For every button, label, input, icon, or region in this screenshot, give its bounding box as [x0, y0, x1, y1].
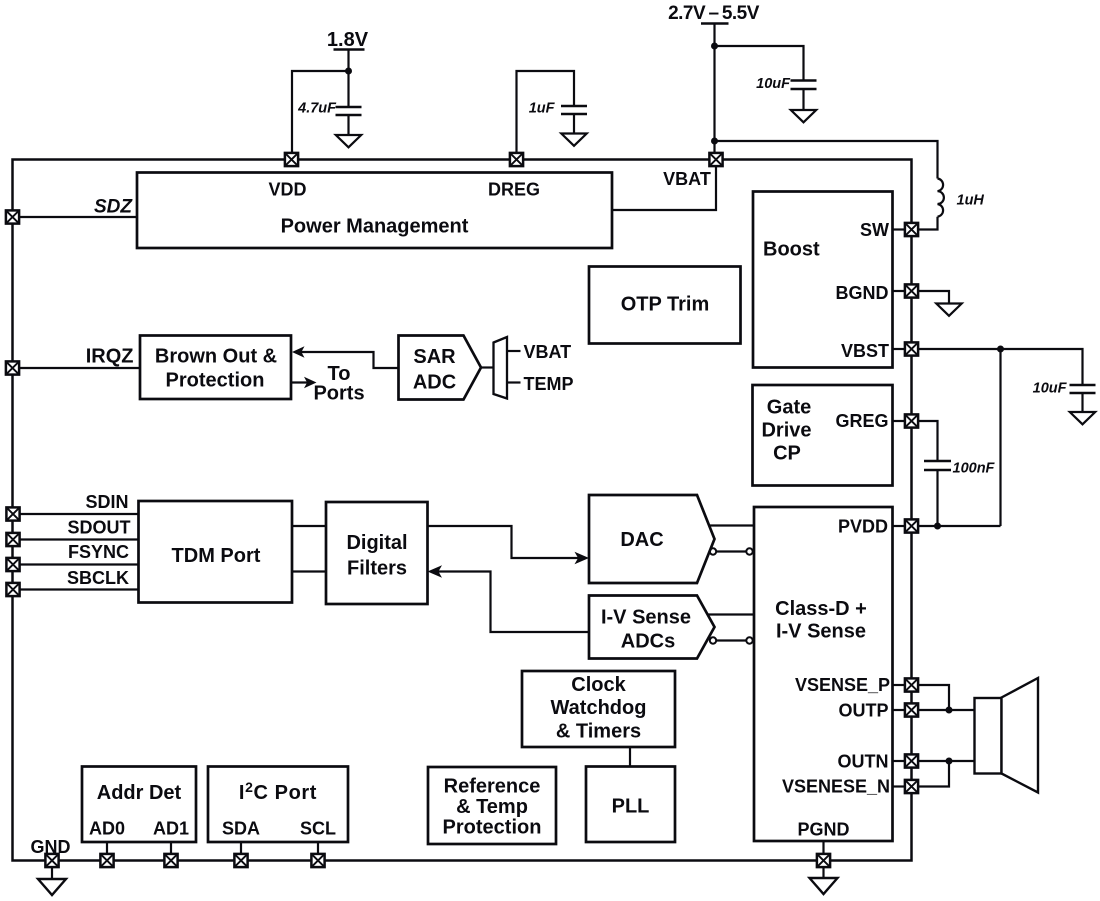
mux selector — [494, 337, 508, 399]
title PLL — [612, 796, 650, 818]
svg-text:ADC: ADC — [413, 372, 456, 394]
svg-text:GREG: GREG — [835, 411, 888, 431]
wire OUTN stub — [893, 760, 906, 762]
wire VBAT to Power Management — [612, 166, 716, 210]
svg-text:Power Management: Power Management — [281, 216, 469, 238]
wire AD0 lead — [106, 842, 108, 854]
title Brown Out — [155, 346, 277, 392]
wire Class-D to I-V Sense ADCs plus — [708, 613, 755, 615]
svg-text:OUTN: OUTN — [838, 752, 889, 772]
svg-text:Protection: Protection — [443, 817, 542, 839]
value 1uF — [529, 101, 556, 117]
pin SW — [905, 223, 918, 236]
svg-text:Brown Out &: Brown Out & — [155, 346, 277, 368]
title Boost — [763, 239, 820, 261]
pin FSYNC — [6, 558, 19, 571]
ground below PGND — [810, 867, 838, 894]
wire DAC to Class-D minus with bubbles — [710, 548, 753, 554]
svg-text:AD1: AD1 — [153, 819, 189, 839]
wire SDOUT — [20, 538, 140, 540]
block I2C Port — [208, 767, 348, 843]
label VBAT mux input — [524, 342, 572, 362]
wire BGND to ground — [918, 291, 949, 304]
svg-text:SDA: SDA — [222, 819, 260, 839]
label FSYNC — [68, 542, 129, 562]
wire SBCLK — [20, 588, 140, 590]
capacitor 10uF (input) — [791, 81, 817, 111]
wire DREG to 1uF — [517, 71, 575, 153]
block OTP Trim — [589, 267, 741, 344]
svg-text:OUTP: OUTP — [838, 701, 888, 721]
ground below boost 10uF — [1070, 412, 1095, 424]
title Power Management — [281, 216, 469, 238]
pin DREG — [510, 153, 523, 166]
title Reference Temp Protection — [443, 776, 542, 839]
svg-text:VSENSE_P: VSENSE_P — [795, 675, 890, 695]
label GREG — [835, 411, 888, 431]
title DAC — [620, 529, 663, 551]
pin IRQZ — [6, 361, 19, 374]
ground at BGND — [936, 304, 961, 316]
label AD1 — [153, 819, 189, 839]
wire FSYNC — [20, 563, 140, 565]
wire mux TEMP input — [507, 381, 521, 383]
wire VSENSE_P stub — [893, 684, 906, 686]
svg-text:I-V Sense: I-V Sense — [776, 621, 866, 643]
svg-text:Addr Det: Addr Det — [97, 782, 182, 804]
wire TDM to Digital Filters upper — [292, 525, 326, 527]
svg-text:Class-D +: Class-D + — [775, 598, 867, 620]
title Gate Drive CP — [761, 397, 811, 465]
wire IRQZ — [19, 367, 141, 369]
wire SAR ADC to mux — [481, 366, 494, 368]
pin VSENSE_P — [905, 678, 918, 691]
wire VBST to 10uF — [918, 349, 1083, 385]
svg-text:Gate: Gate — [767, 397, 811, 419]
label AD0 — [89, 819, 125, 839]
svg-text:1uF: 1uF — [529, 101, 556, 117]
wire Clock Watchdog to PLL — [629, 747, 631, 767]
label PGND — [797, 820, 849, 840]
wire SCL lead — [317, 842, 319, 854]
block PLL — [586, 767, 675, 843]
wire To Ports arrow — [291, 377, 317, 388]
label VSENSE_P — [795, 675, 890, 695]
svg-text:CP: CP — [773, 443, 801, 465]
wire OUTP to speaker — [918, 709, 975, 711]
wire Digital Filters to DAC — [428, 526, 590, 564]
label 2.7V-5.5V — [668, 3, 760, 24]
value 100nF — [953, 461, 996, 477]
block Addr Det — [82, 767, 196, 843]
block Digital Filters — [326, 502, 428, 604]
svg-text:10uF: 10uF — [1033, 381, 1068, 397]
svg-text:PVDD: PVDD — [838, 517, 888, 537]
node VBST junction — [997, 346, 1004, 353]
wire GREG to 100nF — [918, 421, 938, 461]
svg-text:1.8V: 1.8V — [327, 29, 369, 51]
wire AD1 lead — [170, 842, 172, 854]
node VSENESE_N-OUTN junction — [946, 758, 953, 765]
node 100nF to PVDD junction — [934, 523, 941, 530]
wire DAC to Class-D plus — [709, 524, 754, 526]
svg-text:PGND: PGND — [797, 820, 849, 840]
svg-text:Boost: Boost — [763, 239, 820, 261]
wire SDZ — [19, 216, 138, 218]
block Class-D and I-V Sense — [754, 507, 893, 841]
wire 1.8V down to cap — [347, 50, 349, 108]
wire SDA lead — [240, 842, 242, 854]
svg-text:VBST: VBST — [841, 341, 889, 361]
pin VBAT — [709, 153, 722, 166]
title OTP Trim — [621, 294, 710, 316]
svg-text:Reference: Reference — [444, 776, 541, 798]
ground below input 10uF — [791, 110, 816, 122]
svg-text:& Timers: & Timers — [556, 721, 641, 743]
pin SBCLK — [6, 583, 19, 596]
pin BGND — [905, 284, 918, 297]
svg-text:VBAT: VBAT — [524, 342, 572, 362]
svg-text:GND: GND — [31, 837, 71, 857]
pin PVDD — [905, 519, 918, 532]
node supply junction upper — [711, 43, 718, 50]
svg-text:IRQZ: IRQZ — [86, 346, 134, 368]
pin SCL — [311, 854, 324, 867]
label 1.8V — [327, 29, 369, 51]
capacitor 4.7uF — [336, 107, 362, 135]
svg-text:OTP Trim: OTP Trim — [621, 294, 710, 316]
label OUTN — [838, 752, 889, 772]
svg-text:TDM Port: TDM Port — [172, 545, 261, 567]
label SDA — [222, 819, 260, 839]
block Gate Drive CP — [753, 385, 893, 486]
label VDD — [268, 180, 306, 200]
svg-text:Filters: Filters — [347, 558, 407, 580]
pin GREG — [905, 414, 918, 427]
title Clock Watchdog Timers — [551, 674, 647, 743]
label IRQZ — [86, 346, 134, 368]
svg-text:Drive: Drive — [761, 420, 811, 442]
pin OUTP — [905, 703, 918, 716]
svg-text:SBCLK: SBCLK — [67, 568, 129, 588]
title Digital Filters — [346, 532, 407, 580]
wire SDIN — [20, 513, 140, 515]
label To Ports — [313, 363, 364, 405]
label TEMP mux input — [524, 374, 574, 394]
wire PGND lead — [822, 841, 824, 854]
svg-text:SDOUT: SDOUT — [68, 518, 131, 538]
label PVDD — [838, 517, 888, 537]
pin VBST — [905, 342, 918, 355]
wire VSENESE_N tap — [918, 761, 949, 787]
supply rail 1.8V bar — [334, 48, 365, 51]
svg-text:VDD: VDD — [268, 180, 306, 200]
title SAR ADC — [413, 346, 456, 394]
svg-text:1uH: 1uH — [957, 193, 985, 209]
pin AD1 — [164, 854, 177, 867]
ground below GND — [38, 867, 66, 895]
title I2C Port — [239, 779, 317, 804]
wire GREG stub — [893, 420, 906, 422]
wire PVDD line — [918, 525, 1001, 527]
title Addr Det — [97, 782, 182, 804]
wire OUTP stub — [893, 709, 906, 711]
capacitor 100nF — [924, 461, 951, 526]
label GND — [31, 837, 71, 857]
pin VDD — [285, 153, 298, 166]
wire Class-D to I-V Sense ADCs minus with bubbles — [710, 637, 753, 643]
pin SDZ — [6, 210, 19, 223]
svg-text:Ports: Ports — [313, 383, 364, 405]
wire SAR ADC to Brown Out arrow — [292, 346, 399, 368]
block DAC — [589, 495, 715, 583]
pin AD0 — [100, 854, 113, 867]
block Reference and Temp Protection — [428, 767, 556, 844]
ground below 1uF — [561, 134, 586, 146]
svg-text:10uF: 10uF — [756, 76, 791, 92]
title TDM Port — [172, 545, 261, 567]
svg-text:Watchdog: Watchdog — [551, 697, 647, 719]
wire junction to VDD pin — [292, 71, 349, 153]
svg-text:Clock: Clock — [571, 674, 626, 696]
node supply junction lower — [711, 138, 718, 145]
ground below 4.7uF — [336, 135, 361, 147]
svg-text:& Temp: & Temp — [456, 796, 528, 818]
svg-text:SCL: SCL — [300, 819, 336, 839]
pin GND — [45, 854, 58, 867]
capacitor 1uF — [561, 106, 587, 134]
block Clock Watchdog and Timers — [522, 671, 675, 747]
svg-text:SAR: SAR — [413, 346, 456, 368]
pin SDOUT — [6, 533, 19, 546]
svg-text:4.7uF: 4.7uF — [297, 101, 337, 117]
wire supply to inductor — [715, 141, 938, 179]
svg-text:SDIN: SDIN — [85, 492, 128, 512]
pin SDA — [234, 854, 247, 867]
label SDIN — [85, 492, 128, 512]
speaker — [975, 678, 1039, 793]
title Class-D I-V Sense — [775, 598, 867, 643]
wire inductor to SW pin — [918, 217, 938, 230]
label SBCLK — [67, 568, 129, 588]
value 4.7uF — [297, 101, 337, 117]
wire VSENESE_N stub — [893, 785, 906, 787]
chip outline — [13, 160, 912, 861]
label VBAT — [663, 169, 711, 189]
label SCL — [300, 819, 336, 839]
block I-V Sense ADCs — [589, 596, 715, 659]
svg-text:DAC: DAC — [620, 529, 663, 551]
label SDZ — [94, 197, 133, 218]
supply rail 2.7V-5.5V bar — [701, 22, 729, 25]
label SW — [860, 220, 889, 240]
svg-text:PLL: PLL — [612, 796, 650, 818]
value 10uF input — [756, 76, 791, 92]
block SAR ADC — [399, 336, 482, 400]
wire VSENSE_P tap — [918, 685, 949, 710]
svg-text:SW: SW — [860, 220, 889, 240]
wire supply to 10uF — [715, 46, 804, 81]
node 1.8V junction — [345, 68, 352, 75]
wire VBST junction down to PVDD line — [999, 349, 1001, 526]
label DREG — [488, 180, 540, 200]
capacitor 10uF (boost) — [1070, 385, 1096, 412]
svg-text:100nF: 100nF — [953, 461, 996, 477]
wire PVDD stub — [893, 525, 906, 527]
label OUTP — [838, 701, 888, 721]
wire TDM to Digital Filters lower — [292, 570, 326, 572]
node VSENSE_P-OUTP junction — [946, 707, 953, 714]
pin PGND — [817, 854, 830, 867]
pin OUTN — [905, 754, 918, 767]
svg-text:AD0: AD0 — [89, 819, 125, 839]
svg-text:BGND: BGND — [836, 283, 889, 303]
svg-text:Digital: Digital — [346, 532, 407, 554]
svg-text:TEMP: TEMP — [524, 374, 574, 394]
wire mux VBAT input — [507, 350, 521, 352]
block TDM Port — [139, 501, 293, 603]
pin SDIN — [6, 507, 19, 520]
wire BGND stub — [893, 290, 906, 292]
pin VSENESE_N — [905, 780, 918, 793]
block Boost — [753, 192, 893, 368]
label VBST — [841, 341, 889, 361]
svg-text:Protection: Protection — [166, 370, 265, 392]
wire SW stub — [893, 228, 906, 230]
svg-text:FSYNC: FSYNC — [68, 542, 129, 562]
wire OUTN to speaker — [918, 760, 975, 762]
wire VBST stub — [893, 348, 906, 350]
title I-V Sense ADCs — [601, 607, 691, 653]
wire 2.7V-5.5V down to VBAT pin — [713, 24, 715, 154]
svg-text:SDZ: SDZ — [94, 197, 133, 218]
wire I-V Sense ADCs to Digital Filters — [428, 565, 590, 632]
label BGND — [836, 283, 889, 303]
svg-text:I-V Sense: I-V Sense — [601, 607, 691, 629]
value 1uH — [957, 193, 985, 209]
block Brown Out and Protection — [140, 336, 291, 400]
inductor L 1uH — [938, 179, 944, 217]
label VSENESE_N — [782, 777, 890, 797]
label SDOUT — [68, 518, 131, 538]
svg-text:DREG: DREG — [488, 180, 540, 200]
svg-text:2.7V – 5.5V: 2.7V – 5.5V — [668, 3, 760, 24]
value 10uF boost — [1033, 381, 1068, 397]
svg-text:VSENESE_N: VSENESE_N — [782, 777, 890, 797]
block Power Management — [137, 173, 612, 249]
svg-text:ADCs: ADCs — [621, 631, 675, 653]
svg-text:VBAT: VBAT — [663, 169, 711, 189]
